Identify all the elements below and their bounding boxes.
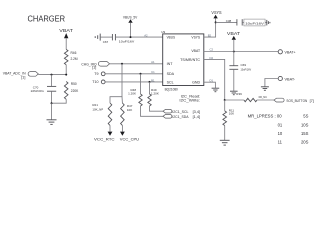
table MR_LPRESS (248, 114, 309, 145)
svg-text:D1: D1 (210, 78, 214, 82)
resistor R47 10K (121, 103, 133, 132)
junction node A (C70 tap) (51, 74, 53, 76)
testpoint T10 (92, 80, 105, 84)
power symbol VBAT (right) (227, 31, 241, 52)
junction node B (R46/R50) (65, 74, 67, 76)
wire VBAT pin C2 to VBAT+ (204, 51, 278, 53)
wire TS/MR/NTC pin D2 (204, 59, 225, 100)
svg-text:VCC_RTC: VCC_RTC (94, 137, 115, 142)
svg-text:VBAT: VBAT (191, 49, 200, 53)
junction R49 tap (149, 81, 151, 83)
note I2C addresses (179, 94, 200, 102)
capacitor C67 10uF/16V (100, 34, 134, 44)
svg-text:VSYS: VSYS (211, 10, 221, 15)
svg-text:[1]: [1] (92, 66, 96, 70)
svg-text:10uF/16V: 10uF/16V (119, 40, 134, 44)
svg-text:T9: T9 (94, 72, 98, 76)
svg-text:C1: C1 (151, 70, 155, 74)
svg-text:10uF/16V: 10uF/16V (241, 68, 252, 72)
junction C38 tee (215, 21, 217, 23)
svg-text:01: 01 (278, 123, 283, 128)
svg-text:SOS_BUTTON: SOS_BUTTON (286, 99, 307, 103)
junction VBAT column (233, 51, 235, 53)
connector VBAT- (278, 76, 296, 81)
svg-text:22N/C0G: 22N/C0G (31, 89, 45, 93)
resistor R46 2.2M (64, 49, 78, 74)
svg-text:1.20K: 1.20K (128, 92, 136, 96)
svg-text:SDA: SDA (167, 72, 175, 76)
svg-text:[7]: [7] (310, 99, 314, 103)
svg-text:A1: A1 (151, 60, 155, 64)
net tag VBAT_ADC_IN [1] (3, 72, 39, 80)
svg-text:U9: U9 (161, 30, 165, 34)
svg-text:[1,4]: [1,4] (193, 115, 200, 119)
power symbol VCC_RTC (94, 132, 115, 142)
svg-text:10: 10 (278, 131, 283, 136)
svg-text:220K: 220K (71, 89, 79, 93)
testpoint T9 (94, 72, 105, 76)
svg-text:B2: B2 (208, 34, 212, 38)
junction R48 tap (140, 73, 142, 75)
net tag I2C1_SDA [1,4] (163, 115, 200, 119)
resistor R49 1.20K (148, 82, 163, 111)
wire GND pin D1 to ground (204, 82, 216, 88)
svg-text:C67: C67 (103, 40, 109, 44)
resistor R21 10K_NP (92, 103, 111, 132)
resistor R50 220K (52, 82, 80, 104)
power symbol VBUS_5V (123, 15, 138, 37)
svg-text:VBAT: VBAT (227, 31, 241, 36)
svg-text:2.2M: 2.2M (71, 57, 78, 61)
svg-text:VBAT: VBAT (59, 28, 73, 33)
svg-text:R50: R50 (71, 82, 77, 86)
wire T10 to SCL pin B1 (105, 81, 163, 83)
power symbol VBAT (left) (59, 28, 73, 49)
svg-text:C38: C38 (226, 19, 232, 23)
svg-text:10K: 10K (127, 108, 132, 112)
net tag SOS_BUTTON [7] (274, 98, 314, 103)
junction VBUS_5V stem (130, 36, 132, 38)
ground (IC GND pin) (212, 88, 220, 92)
wire INT net down to pull resistors (110, 64, 122, 103)
svg-text:MR_LPRESS : 00: MR_LPRESS : 00 (248, 114, 283, 119)
ground (sideways, C67) (95, 34, 100, 41)
capacitor C70 22N/C0G (31, 75, 57, 104)
wire VSYS pin B2 (204, 18, 216, 37)
svg-text:R21: R21 (92, 103, 98, 107)
svg-text:CHARGER: CHARGER (28, 13, 66, 23)
svg-text:A2: A2 (144, 34, 148, 38)
svg-text:B1: B1 (151, 78, 155, 82)
ground (left column) (47, 103, 57, 124)
svg-text:VBUS_5V: VBUS_5V (123, 15, 138, 20)
svg-text:11: 11 (278, 139, 283, 144)
svg-text:R39: R39 (236, 92, 242, 96)
op-amp/IC U9 BQ21080 (161, 30, 203, 92)
junction INT pulls (121, 63, 123, 65)
svg-text:C2: C2 (210, 48, 214, 52)
resistor R11 10K (223, 100, 235, 140)
resistor R39 0R_NC (225, 92, 274, 102)
svg-text:10K: 10K (229, 112, 234, 116)
resistor R48 1.20K (128, 74, 163, 117)
connector VBAT+ (278, 50, 295, 55)
svg-text:VBUS: VBUS (167, 36, 176, 40)
ground (sideways right, C38) (267, 20, 270, 26)
power symbol VCC_CPU (120, 132, 139, 142)
svg-text:I2C_Write:: I2C_Write: (179, 98, 200, 102)
svg-text:SCL: SCL (167, 81, 174, 85)
svg-text:I2C1_SCL: I2C1_SCL (172, 110, 188, 114)
svg-text:10S: 10S (301, 123, 309, 128)
svg-text:GND: GND (192, 81, 200, 85)
svg-text:VCC_CPU: VCC_CPU (120, 137, 139, 142)
capacitor C38 10uF/16V (216, 19, 267, 26)
svg-text:5S: 5S (303, 114, 308, 119)
ground (VBAT-) (261, 87, 269, 91)
svg-text:INT: INT (167, 62, 174, 66)
svg-text:BQ21080: BQ21080 (165, 88, 178, 92)
svg-text:10uF/16V: 10uF/16V (245, 21, 264, 25)
net tag CHG_IRQ [1] (81, 62, 109, 70)
svg-text:20S: 20S (301, 139, 309, 144)
svg-text:I2C1_SDA: I2C1_SDA (172, 115, 189, 119)
junction TS node (224, 99, 226, 101)
svg-text:[3,4]: [3,4] (193, 110, 200, 114)
svg-text:T10: T10 (92, 80, 98, 84)
svg-text:C69: C69 (241, 63, 247, 67)
net tag I2C1_SCL [3,4] (163, 109, 200, 113)
svg-text:[1]: [1] (21, 75, 25, 79)
ground (R11) (220, 140, 230, 145)
svg-text:VSYS: VSYS (191, 36, 200, 40)
svg-text:VBAT+: VBAT+ (285, 51, 296, 55)
wire CHG_IRQ to INT pin A1 (110, 63, 163, 65)
wire VBAT_ADC_IN to node (38, 74, 66, 76)
wire C67 to VBUS pin A2 (115, 36, 162, 38)
svg-text:1.20K: 1.20K (151, 92, 159, 96)
svg-text:15S: 15S (301, 131, 309, 136)
svg-text:D2: D2 (210, 56, 214, 60)
junction node C (51, 102, 53, 104)
wire VBAT- to ground (265, 79, 278, 87)
svg-text:TS/MR/NTC: TS/MR/NTC (180, 58, 200, 62)
power symbol VSYS (211, 10, 221, 18)
wire T9 to SDA pin C1 (105, 73, 163, 75)
ground (C69) (230, 91, 238, 95)
svg-text:10K_NP: 10K_NP (92, 108, 103, 112)
svg-text:VBAT-: VBAT- (285, 77, 296, 81)
capacitor C69 10uF/16V (229, 52, 251, 91)
svg-text:R46: R46 (71, 51, 77, 55)
svg-text:0R_NC: 0R_NC (259, 95, 268, 99)
